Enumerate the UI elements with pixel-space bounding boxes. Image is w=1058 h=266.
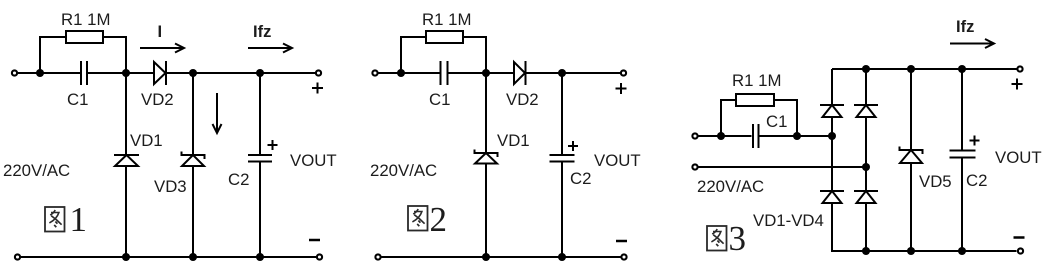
- terminal: AC input line2 fig3: [692, 164, 697, 169]
- wire: top rail input to C1 fig2: [379, 72, 440, 74]
- svg-text:VOUT: VOUT: [995, 148, 1042, 167]
- svg-text:C2: C2: [570, 169, 591, 188]
- wire: C1 right plate to bridge left column fig3: [760, 135, 833, 137]
- wire: bottom rail figure 1: [21, 256, 316, 258]
- terminal: - output bottom-right: [317, 254, 322, 259]
- wire: VD1 anode to bottom rail fig2: [485, 164, 487, 258]
- label: + polarity of C2 fig3: [970, 136, 980, 146]
- svg-text:C2: C2: [228, 170, 249, 189]
- svg-text:220V/AC: 220V/AC: [697, 177, 764, 196]
- node: C2 bottom fig2: [558, 253, 566, 261]
- capacitor C2 plates fig2: [550, 154, 575, 156]
- wire: C2 bottom to rail fig3: [961, 158, 963, 251]
- node: junction C1/R1/VD1 on top rail: [122, 69, 130, 77]
- label: - polarity fig2: [616, 240, 627, 243]
- wire: input line1 to C1 fig3: [699, 135, 752, 137]
- wire: bottom rail fig2: [382, 256, 621, 258]
- node: VD5 top junction fig3: [907, 65, 915, 73]
- figure label 图3: [707, 226, 727, 251]
- svg-text:C1: C1: [67, 90, 88, 109]
- label: + polarity at output: [312, 83, 323, 94]
- diode VD2 (series, pointing right): [154, 62, 166, 84]
- svg-text:VD2: VD2: [506, 90, 539, 109]
- node: junction C2 top fig2: [558, 69, 566, 77]
- wire: top rail, input terminal to C1 left plate: [18, 72, 80, 74]
- wire: R1 left leg fig2: [401, 37, 426, 72]
- wire: C2 branch down fig2: [561, 73, 563, 154]
- svg-text:C1: C1: [429, 90, 450, 109]
- capacitor C1 plates: [80, 61, 82, 85]
- capacitor C2 plates (electrolytic): [248, 154, 272, 156]
- diode VD1 (bridge upper-left): [820, 104, 844, 106]
- node: VD1 bottom fig2: [482, 253, 490, 261]
- svg-text:R1 1M: R1 1M: [422, 10, 471, 29]
- terminal: AC input top-left: [12, 70, 17, 75]
- terminal: AC input line1 fig3: [692, 133, 697, 138]
- wire: top rail fig3: [832, 68, 1017, 70]
- node: VD1 bottom junction: [122, 253, 130, 261]
- svg-text:VOUT: VOUT: [290, 151, 337, 170]
- node: C2 top junction fig3: [958, 65, 966, 73]
- node: junction C2 top: [256, 69, 264, 77]
- wire: C2 branch down fig3: [961, 69, 963, 150]
- label: - polarity fig3: [1014, 236, 1025, 239]
- arrow: current Ifz direction: [248, 47, 290, 49]
- node: bridge right column top junction fig3: [862, 65, 870, 73]
- svg-text:R1 1M: R1 1M: [732, 71, 781, 90]
- svg-text:Ifz: Ifz: [956, 18, 974, 36]
- diode VD4 (bridge lower-right): [854, 190, 878, 192]
- node: junction line1 to bridge left column fig3: [828, 132, 836, 140]
- zener diode VD5 fig3 (shunt regulator): [900, 147, 923, 155]
- svg-text:R1 1M: R1 1M: [61, 10, 110, 29]
- wire: VD5 anode to bottom rail fig3: [910, 163, 912, 251]
- resistor R1 body fig2: [426, 31, 463, 43]
- wire: VD3 branch from top rail down: [192, 73, 194, 155]
- wire: VD1 branch from top rail down: [125, 73, 127, 155]
- node: VD3 bottom junction: [189, 253, 197, 261]
- resistor R1 body fig3: [736, 94, 774, 106]
- svg-text:I: I: [158, 23, 163, 41]
- terminal: + output top-right: [316, 70, 321, 75]
- wire: bridge left column upper segment fig3: [831, 69, 833, 105]
- wire: VD1 branch down fig2: [485, 73, 487, 153]
- arrow: Ifz direction fig3: [950, 43, 992, 45]
- wire: VD3 anode down to bottom rail: [192, 166, 194, 257]
- svg-text:VD1-VD4: VD1-VD4: [753, 211, 824, 230]
- wire: C2 branch from top rail down: [259, 73, 261, 154]
- svg-text:VD1: VD1: [497, 131, 530, 150]
- svg-text:1: 1: [70, 200, 88, 239]
- wire: R1 right leg fig2: [463, 37, 486, 72]
- svg-text:220V/AC: 220V/AC: [370, 161, 437, 180]
- svg-text:VOUT: VOUT: [594, 151, 641, 170]
- figure label 图2: [408, 206, 428, 231]
- wire: bottom rail fig3: [832, 250, 1017, 252]
- node: junction input/R1/C1 fig2: [397, 69, 405, 77]
- wire: input line2 to bridge right column fig3: [699, 166, 867, 168]
- svg-text:C2: C2: [966, 171, 987, 190]
- diode VD2 (bridge upper-right): [854, 104, 878, 106]
- terminal: AC input top-left fig2: [372, 70, 377, 75]
- svg-text:VD5: VD5: [919, 172, 952, 191]
- node: junction of input, R1 and C1 (top rail): [36, 69, 44, 77]
- label: + polarity fig3: [1012, 79, 1023, 90]
- wire: VD1 anode down to bottom rail: [125, 166, 127, 257]
- figure label 图1: [45, 207, 65, 232]
- terminal: + output fig2: [621, 70, 626, 75]
- svg-text:3: 3: [729, 219, 747, 258]
- capacitor C1 plates fig3: [752, 124, 754, 148]
- arrow: load current down between VD3 and C2: [216, 93, 218, 131]
- wire: C2 bottom plate to bottom rail: [259, 162, 261, 257]
- wire: bridge right column upper segment fig3: [865, 69, 867, 105]
- terminal: AC input bottom-left fig2: [375, 254, 380, 259]
- node: C2 bottom junction: [256, 253, 264, 261]
- svg-text:VD1: VD1: [130, 131, 163, 150]
- wire: bridge right column middle segment fig3: [865, 117, 867, 191]
- diode VD1 (shunt, conducting up): [114, 154, 139, 156]
- wire: bridge left column middle segment fig3: [831, 117, 833, 191]
- wire: R1 left leg up from junction: [40, 37, 66, 72]
- node: junction line2 to bridge right column fig3: [862, 163, 870, 171]
- label: + polarity of C2: [268, 140, 278, 150]
- node: junction C1/R1/VD1 fig2: [482, 69, 490, 77]
- svg-text:C1: C1: [766, 112, 787, 131]
- zener diode VD1 fig2 (shunt regulator): [475, 150, 498, 158]
- zener diode VD3 (shunt regulator): [182, 152, 205, 160]
- node: C2 bottom junction fig3: [958, 247, 966, 255]
- wire: C1 to VD2 anode fig2: [449, 72, 515, 74]
- wire: R1 right leg fig3: [774, 100, 797, 135]
- terminal: + output fig3: [1017, 66, 1022, 71]
- arrow: current I direction: [140, 47, 182, 49]
- wire: VD2 cathode to + output terminal: [167, 72, 315, 74]
- resistor R1 body: [66, 31, 103, 43]
- wire: VD2 cathode to + terminal fig2: [527, 72, 621, 74]
- capacitor C2 plates fig3: [950, 150, 976, 152]
- label: + polarity fig2: [616, 83, 627, 94]
- label: - polarity at output: [309, 239, 320, 242]
- node: junction input/R1 line1 fig3: [717, 132, 725, 140]
- svg-text:Ifz: Ifz: [253, 23, 271, 41]
- node: junction VD2 cathode / VD3 branch: [189, 69, 197, 77]
- node: VD5 bottom junction fig3: [907, 247, 915, 255]
- capacitor C1 plates fig2: [440, 61, 442, 85]
- wire: R1 right leg down to top rail: [103, 37, 126, 72]
- diode VD2 fig2 (series): [514, 62, 525, 84]
- wire: bridge left column lower segment fig3: [831, 203, 833, 252]
- wire: VD5 branch down fig3: [910, 69, 912, 150]
- terminal: AC input bottom-left: [15, 254, 20, 259]
- wire: C1 right plate to VD2 anode: [88, 72, 154, 74]
- label: + polarity of C2 fig2: [568, 141, 578, 151]
- diode VD3 (bridge lower-left): [820, 190, 844, 192]
- wire: bridge right column lower segment fig3: [865, 203, 867, 251]
- node: bridge right column bottom junction fig3: [862, 247, 870, 255]
- terminal: - output fig2: [621, 254, 626, 259]
- svg-text:VD2: VD2: [141, 90, 174, 109]
- node: junction R1/C1 right fig3: [793, 132, 801, 140]
- wire: C2 bottom to rail fig2: [561, 162, 563, 257]
- svg-text:VD3: VD3: [154, 177, 187, 196]
- wire: R1 left leg fig3: [721, 100, 736, 135]
- terminal: - output fig3: [1018, 248, 1023, 253]
- svg-text:220V/AC: 220V/AC: [3, 161, 70, 180]
- svg-text:2: 2: [430, 200, 448, 239]
